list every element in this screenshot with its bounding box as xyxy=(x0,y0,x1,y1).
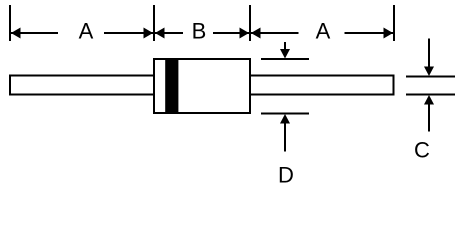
svg-text:C: C xyxy=(414,138,430,163)
svg-text:A: A xyxy=(79,19,94,44)
svg-text:A: A xyxy=(316,19,331,44)
svg-text:D: D xyxy=(278,163,294,185)
svg-text:B: B xyxy=(192,19,207,44)
